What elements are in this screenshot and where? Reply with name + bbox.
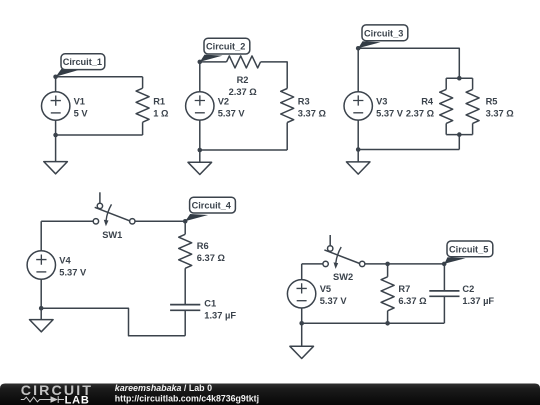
footer bar [0,383,540,405]
node junction c1 top [53,75,58,80]
wire top-right c4 [134,220,185,222]
svg-text:LAB: LAB [65,394,90,405]
svg-text:Circuit_3: Circuit_3 [364,28,403,38]
node junction parallel bottom [457,132,462,137]
resistor R4 [440,78,453,134]
capacitor C1 [170,305,200,311]
svg-text:1.37 µF: 1.37 µF [204,311,236,321]
svg-text:3.37 Ω: 3.37 Ω [486,109,515,119]
wire top-left c2 [200,61,227,63]
node junction c5 R7 top [385,262,390,267]
wire top-left c4 [41,220,93,222]
R2 labels [229,75,258,97]
node junction c5 V5 bottom [299,321,304,326]
svg-text:R6: R6 [197,241,209,251]
svg-text:R7: R7 [398,284,410,294]
svg-text:R5: R5 [486,97,498,107]
svg-text:Circuit_4: Circuit_4 [192,201,232,211]
R4 labels [406,97,435,119]
svg-text:Circuit_2: Circuit_2 [206,42,245,52]
node junction c1 bottom [53,133,58,138]
svg-text:SW2: SW2 [333,272,353,282]
svg-text:R1: R1 [153,97,165,107]
svg-text:V2: V2 [218,97,229,107]
svg-text:kareemshabaka / Lab 0: kareemshabaka / Lab 0 [115,383,212,393]
svg-text:V3: V3 [376,97,387,107]
voltage source V2 [186,62,214,150]
svg-text:V1: V1 [74,97,85,107]
R5 labels [486,97,515,119]
svg-text:5.37 V: 5.37 V [218,109,246,119]
voltage source V5 [287,264,315,323]
node junction parallel top [457,76,462,81]
ground c5 [290,323,314,358]
svg-text:R3: R3 [298,97,310,107]
label Circuit_3 [358,25,408,48]
switch SW2 [323,235,365,269]
wire bottom c2 [200,149,287,151]
svg-text:C1: C1 [204,299,216,309]
svg-text:3.37 Ω: 3.37 Ω [298,109,327,119]
CircuitLab logo resistor-diode icon [21,396,64,403]
ground c2 [188,150,212,175]
wire top c1 [56,76,143,78]
svg-text:V4: V4 [59,255,71,265]
wire top-right c2 [261,62,288,89]
node junction c4 top [183,219,188,224]
R1 labels [153,97,169,119]
svg-text:R4: R4 [421,97,434,107]
ground c3 [346,150,370,175]
switch SW1 [93,192,135,226]
wire top c3 [358,48,459,78]
svg-text:1.37 µF: 1.37 µF [462,296,494,306]
V5 labels [320,284,348,306]
label Circuit_1 [56,54,105,77]
resistor R5 [466,78,479,134]
svg-text:1 Ω: 1 Ω [153,109,169,119]
voltage source V1 [42,77,70,135]
svg-text:V5: V5 [320,284,331,294]
label Circuit_2 [200,38,250,62]
R3 labels [298,97,327,119]
ground c1 [44,135,68,174]
V3 labels [376,97,404,119]
voltage source V4 [27,221,55,308]
node junction c2 bottom [198,148,203,153]
svg-text:Circuit_1: Circuit_1 [63,57,102,67]
resistor R6 [179,221,192,304]
wire bottom c5 [302,322,445,324]
V4 labels [59,255,87,277]
svg-text:C2: C2 [462,284,474,294]
R6 labels [197,241,226,263]
C2 labels [462,284,494,306]
resistor R3 [281,89,294,151]
capacitor C2 [429,264,459,323]
ground c4 [30,308,54,332]
svg-text:http://circuitlab.com/c4k8736g: http://circuitlab.com/c4k8736g9tktj [115,394,259,404]
wire bottom c4 [41,308,185,336]
voltage source V3 [344,48,372,149]
svg-text:Circuit_5: Circuit_5 [449,244,488,254]
wire parallel bottom bar [446,134,472,136]
resistor R2 [227,56,261,68]
R7 labels [398,284,427,306]
svg-text:5 V: 5 V [74,109,89,119]
node junction c2 top [198,60,203,65]
svg-text:R2: R2 [237,75,249,85]
svg-text:SW1: SW1 [102,230,122,240]
label Circuit_4 [185,197,235,221]
resistor R1 [136,77,149,135]
node junction c4 bottom [39,306,44,311]
svg-text:2.37 Ω: 2.37 Ω [229,87,258,97]
wire parallel top bar [446,77,472,79]
node junction c5 C2 top [442,262,447,267]
svg-text:5.37 V: 5.37 V [320,296,348,306]
wire top-left c5 [302,263,323,265]
node junction c3 top [356,46,361,51]
wire bottom c1 [56,134,143,136]
C1 labels [204,299,236,321]
label Circuit_5 [444,241,493,264]
wire bottom c3 [358,135,459,150]
svg-text:6.37 Ω: 6.37 Ω [197,253,226,263]
wire top-right c5 [365,263,444,265]
V2 labels [218,97,246,119]
node junction c3 bottom [356,147,361,152]
resistor R7 [381,264,394,323]
svg-text:5.37 V: 5.37 V [376,109,404,119]
svg-text:5.37 V: 5.37 V [59,267,87,277]
svg-text:2.37 Ω: 2.37 Ω [406,109,435,119]
svg-text:6.37 Ω: 6.37 Ω [398,296,427,306]
node junction c5 R7 bottom [385,321,390,326]
V1 labels [74,97,89,119]
